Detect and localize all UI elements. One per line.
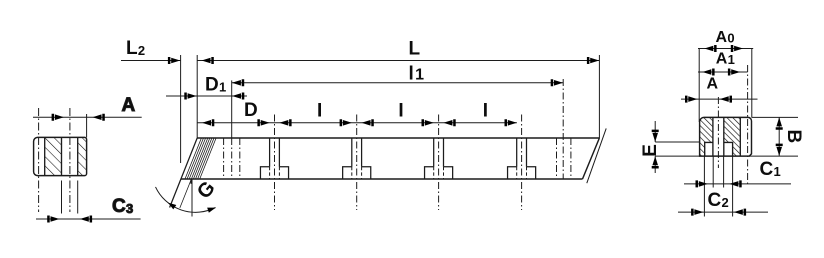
tab 2 squares bbox=[343, 167, 371, 179]
dimension L2 line bbox=[121, 60, 181, 62]
tab 3 slot lines bbox=[434, 138, 444, 167]
svg-text:C1: C1 bbox=[760, 159, 782, 180]
dimension B line bbox=[778, 117, 780, 155]
dimension D1 line bbox=[166, 95, 247, 97]
dimension E line upper bbox=[654, 121, 656, 142]
left view extension line above right edge bbox=[86, 114, 88, 137]
bar left slant edge extended bbox=[170, 138, 198, 208]
tab 4 squares bbox=[508, 167, 536, 179]
right end dash-dot line 2 (l1 extension) bbox=[562, 79, 564, 179]
left end hatch lines bbox=[185, 138, 216, 179]
dimension L line bbox=[197, 60, 599, 62]
right end dash-dot line 1 bbox=[556, 138, 558, 179]
left view hatch region 1 bbox=[45, 137, 61, 175]
B bottom extension bbox=[749, 155, 798, 157]
svg-text:C3: C3 bbox=[112, 196, 134, 217]
right end extra slash bbox=[587, 128, 606, 183]
left view extension line below d bbox=[77, 181, 79, 214]
svg-text:C2: C2 bbox=[708, 190, 730, 211]
extension below V1 bbox=[703, 156, 705, 216]
tab 3 squares bbox=[425, 167, 453, 179]
left view inner edge 1 bbox=[44, 137, 46, 175]
dimension C1 line bbox=[684, 183, 791, 185]
left view hatch region 2 bbox=[78, 137, 86, 175]
dimension A left view arrows bbox=[52, 114, 105, 121]
tab 4 slot lines bbox=[517, 138, 527, 167]
right view center line right bbox=[747, 65, 749, 186]
right view hatch wall line bbox=[739, 117, 741, 156]
extension below V4 bbox=[732, 156, 734, 216]
dimension C2 arrows bbox=[691, 209, 746, 216]
svg-text:G: G bbox=[193, 177, 220, 203]
svg-text:A0: A0 bbox=[716, 29, 735, 46]
svg-text:A: A bbox=[707, 75, 719, 92]
right end dash-dot line 3 bbox=[570, 138, 572, 179]
dimension E line lower bbox=[654, 156, 656, 173]
svg-text:D: D bbox=[244, 100, 258, 121]
extension line top-right corner bbox=[598, 55, 600, 138]
dimension A1 line bbox=[698, 71, 748, 73]
angle G arc bbox=[156, 187, 216, 212]
dimension A0 line bbox=[698, 48, 753, 50]
dimension L arrows bbox=[202, 57, 600, 64]
svg-text:A1: A1 bbox=[716, 50, 735, 67]
left view inner edge 2 bbox=[61, 137, 63, 175]
svg-text:I: I bbox=[317, 100, 323, 121]
E bottom extension bbox=[655, 155, 699, 157]
bar bottom edge bbox=[181, 178, 583, 180]
dimension B arrows bbox=[776, 117, 783, 155]
right view foot cutout 1 bbox=[705, 142, 713, 156]
dimension A right line bbox=[681, 98, 758, 100]
left end dash-dot line 3 bbox=[239, 138, 241, 179]
bar top edge bbox=[197, 137, 599, 139]
dimension E arrows bbox=[652, 130, 659, 169]
dimension A left view line bbox=[33, 116, 142, 118]
dimension L2 arrow bbox=[168, 57, 180, 64]
dimension C1 arrows bbox=[696, 180, 742, 187]
svg-text:E: E bbox=[640, 144, 661, 157]
tab 2 slot lines bbox=[352, 138, 362, 167]
dimension l1 arrows bbox=[232, 79, 563, 86]
svg-text:I: I bbox=[483, 100, 489, 121]
left view body outline bbox=[34, 137, 87, 175]
extension below V2 bbox=[712, 156, 714, 187]
chain dimension arrows bbox=[202, 119, 214, 126]
dimension A1 arrows bbox=[702, 69, 740, 76]
svg-text:L: L bbox=[409, 38, 421, 59]
dimension A0 arrows bbox=[704, 45, 743, 52]
angle G thick stub bbox=[190, 179, 192, 184]
right view body outline bbox=[700, 117, 752, 156]
right view center line slot bbox=[717, 97, 719, 168]
left view center line b bbox=[69, 108, 71, 212]
right view hatch region 2 bbox=[724, 118, 740, 156]
right view hatch region 1 bbox=[700, 118, 713, 156]
tab 1 center line bbox=[274, 115, 276, 211]
dimension C3 arrows bbox=[47, 216, 92, 223]
E flange top extension bbox=[655, 141, 699, 143]
B top extension bbox=[752, 116, 799, 118]
svg-text:B: B bbox=[783, 130, 804, 144]
svg-text:l1: l1 bbox=[409, 64, 425, 85]
left end dash-dot line 1 bbox=[223, 138, 225, 179]
left view extension line below c bbox=[61, 181, 63, 214]
angle G arc arrowheads bbox=[166, 200, 176, 209]
left view center line a bbox=[38, 108, 40, 212]
extension line A0 left bbox=[698, 48, 700, 122]
left view inner edge 3 bbox=[77, 137, 79, 175]
tab 1 squares bbox=[260, 167, 288, 179]
extension line D1 right / l1 left bbox=[231, 80, 233, 138]
angle G vertical reference line bbox=[191, 179, 193, 217]
left end dash-dot line 2 bbox=[231, 138, 233, 179]
svg-text:D1: D1 bbox=[205, 75, 227, 96]
dimension l1 line bbox=[232, 82, 564, 84]
hatch line extended for angle G bbox=[180, 138, 208, 208]
extension line A0 right bbox=[751, 48, 753, 117]
svg-text:A: A bbox=[122, 95, 136, 116]
chain dimension line D-I-I-I bbox=[197, 122, 517, 124]
tab 3 center line bbox=[438, 115, 440, 211]
dimension D1 arrows bbox=[184, 93, 244, 100]
tab 1 slot lines bbox=[270, 138, 280, 167]
tab 4 center line bbox=[521, 115, 523, 211]
dimension C3 line bbox=[36, 218, 141, 220]
tab 2 center line bbox=[356, 115, 358, 211]
extension below V3 bbox=[723, 156, 725, 187]
right view slot edge lines bbox=[713, 117, 724, 156]
right view foot cutout 2 bbox=[724, 142, 733, 156]
dimension C2 line bbox=[678, 211, 768, 213]
svg-text:L2: L2 bbox=[126, 38, 145, 59]
extension line top-left corner bbox=[196, 55, 198, 138]
bar right slant edge bbox=[583, 138, 600, 179]
extension line bottom-left corner bbox=[180, 55, 182, 163]
svg-text:I: I bbox=[398, 100, 404, 121]
dimension A right arrows bbox=[685, 96, 732, 103]
